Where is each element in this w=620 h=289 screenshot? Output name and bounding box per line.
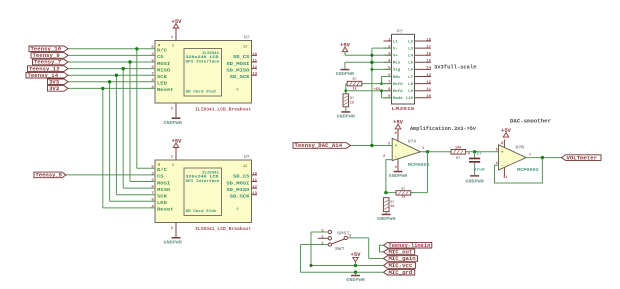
svg-text:R?: R?	[390, 201, 394, 205]
svg-text:DAC-smoother: DAC-smoother	[510, 118, 551, 124]
svg-text:MIC_gain: MIC_gain	[389, 256, 416, 262]
svg-text:-: -	[395, 155, 398, 160]
svg-text:3V3: 3V3	[49, 80, 59, 86]
svg-text:MCP6002: MCP6002	[408, 163, 430, 168]
svg-text:18: 18	[426, 38, 431, 42]
svg-text:47uF: 47uF	[474, 169, 487, 173]
svg-text:GNDPWR: GNDPWR	[336, 71, 355, 77]
svg-text:GNDPWR: GNDPWR	[337, 113, 356, 119]
svg-text:10k: 10k	[455, 146, 463, 151]
svg-text:Amplification.3x3->5v: Amplification.3x3->5v	[410, 126, 476, 132]
svg-text:V-: V-	[393, 47, 398, 51]
svg-text:13: 13	[426, 74, 431, 78]
svg-text:+: +	[395, 144, 398, 149]
svg-text:MIC_grd: MIC_grd	[389, 270, 413, 276]
svg-text:GNDPWR: GNDPWR	[389, 173, 408, 179]
svg-text:-: -	[501, 163, 504, 168]
svg-text:17: 17	[426, 45, 431, 49]
svg-text:R?: R?	[353, 78, 357, 82]
svg-text:RLo: RLo	[393, 62, 401, 66]
svg-text:Teensy_9: Teensy_9	[33, 53, 60, 59]
svg-text:12: 12	[426, 81, 431, 85]
svg-text:+: +	[468, 152, 471, 157]
svg-text:MIC_out: MIC_out	[389, 250, 413, 256]
svg-text:Teensy_12: Teensy_12	[29, 66, 60, 72]
svg-text:MCP6002: MCP6002	[517, 168, 539, 173]
svg-text:+: +	[501, 151, 504, 156]
svg-text:3V3: 3V3	[49, 86, 59, 92]
svg-text:L5: L5	[408, 62, 414, 66]
svg-text:R?: R?	[456, 157, 461, 161]
svg-text:15: 15	[426, 60, 431, 64]
svg-text:Teensy_DAC_A14: Teensy_DAC_A14	[295, 143, 343, 149]
svg-text:R?: R?	[401, 188, 405, 192]
svg-text:SPST: SPST	[337, 231, 350, 236]
svg-text:Teensy_7: Teensy_7	[34, 60, 61, 66]
svg-text:RefO: RefO	[393, 82, 403, 87]
svg-text:U?B: U?B	[516, 146, 525, 151]
svg-text:Sig: Sig	[393, 68, 401, 73]
svg-text:GNDPWR: GNDPWR	[377, 216, 396, 222]
svg-text:C?: C?	[477, 153, 482, 157]
svg-text:U?A: U?A	[408, 140, 417, 145]
svg-text:L3: L3	[408, 47, 414, 51]
svg-text:14: 14	[426, 67, 431, 71]
svg-text:+5V: +5V	[374, 88, 382, 92]
svg-text:Teensy-linein: Teensy-linein	[389, 243, 431, 249]
svg-text:V+: V+	[393, 55, 399, 59]
svg-text:R?: R?	[350, 97, 354, 101]
svg-text:GNDPWR: GNDPWR	[465, 178, 484, 184]
svg-text:L10: L10	[406, 97, 414, 101]
svg-text:Teensy_10: Teensy_10	[31, 47, 62, 53]
svg-text:L1: L1	[393, 40, 399, 44]
svg-text:Mode: Mode	[393, 96, 403, 101]
svg-text:L4: L4	[408, 55, 414, 59]
svg-text:11: 11	[426, 88, 431, 92]
svg-text:3x3full-scale: 3x3full-scale	[434, 64, 477, 70]
svg-text:10: 10	[426, 95, 431, 99]
svg-text:P?: P?	[397, 29, 403, 35]
svg-text:LM3915: LM3915	[392, 106, 415, 112]
svg-text:L7: L7	[408, 76, 414, 80]
svg-text:L6: L6	[408, 69, 414, 73]
svg-text:Teensy_5: Teensy_5	[36, 173, 63, 179]
svg-text:RefA: RefA	[393, 89, 403, 94]
svg-text:L2: L2	[408, 40, 414, 44]
svg-text:GNDPWR: GNDPWR	[346, 277, 365, 283]
svg-text:L9: L9	[408, 90, 414, 94]
svg-text:11: 11	[503, 176, 508, 180]
svg-text:L8: L8	[408, 83, 414, 87]
svg-text:16: 16	[426, 53, 431, 57]
svg-text:MIC-vcc: MIC-vcc	[389, 263, 413, 269]
svg-text:RHi: RHi	[393, 75, 401, 80]
svg-text:Teensy_14: Teensy_14	[28, 73, 59, 79]
svg-text:SW?: SW?	[335, 247, 345, 252]
svg-text:VOLTmeter: VOLTmeter	[567, 155, 598, 161]
